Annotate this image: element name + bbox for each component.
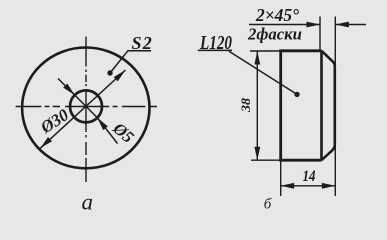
- svg-text:а: а: [81, 190, 93, 215]
- svg-text:2фаски: 2фаски: [247, 25, 302, 44]
- svg-text:38: 38: [238, 97, 253, 113]
- svg-text:S2: S2: [132, 33, 153, 53]
- svg-text:2×45°: 2×45°: [255, 5, 300, 25]
- svg-text:L120: L120: [199, 32, 232, 54]
- svg-text:б: б: [264, 197, 272, 213]
- svg-text:14: 14: [303, 168, 316, 185]
